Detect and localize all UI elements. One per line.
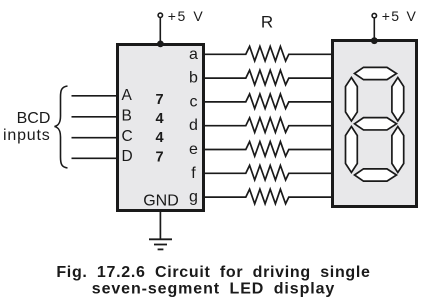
svg-text:b: b [189,70,198,87]
svg-text:+5 V: +5 V [168,8,205,24]
svg-text:D: D [122,148,133,165]
svg-text:A: A [122,87,133,104]
svg-text:seven-segment LED display: seven-segment LED display [92,280,335,297]
svg-text:R: R [261,13,273,32]
resistor R (segment e) with wires [204,142,331,157]
display segment d [355,169,397,181]
svg-text:4: 4 [155,111,163,127]
display segment g [355,118,397,130]
display segment b [392,78,404,122]
svg-text:e: e [189,141,198,158]
junction dot on U1 Vcc pin [157,41,164,48]
svg-text:f: f [191,165,196,182]
brace grouping BCD input wires [55,86,68,168]
svg-text:+5 V: +5 V [382,8,417,24]
svg-text:c: c [190,93,198,110]
resistor R (segment b) with wires [204,70,331,85]
IC U1: 7447 BCD-to-seven-segment decoder body [118,45,204,211]
wire input C [72,137,118,139]
wire input D [72,157,118,159]
svg-text:g: g [189,189,198,206]
svg-text:B: B [122,108,132,125]
seven-segment LED display DS1 body [333,41,417,207]
wire input B [72,116,118,118]
svg-text:a: a [189,46,198,63]
display segment e [346,127,358,173]
ground [149,239,172,249]
svg-text:4: 4 [155,130,163,146]
svg-text:inputs: inputs [3,127,51,144]
resistor R (segment a) with wires [204,46,331,61]
junction dot on display common anode [371,37,378,44]
svg-text:7: 7 [155,149,163,165]
svg-text:d: d [189,117,198,134]
display segment f [346,78,358,122]
svg-text:GND: GND [143,192,179,209]
svg-text:7: 7 [155,92,163,108]
+5 V supply terminal (left, Vcc of U1) [158,13,162,43]
resistor R (segment d) with wires [204,118,331,133]
+5 V supply terminal (right, common anode of display) [372,13,376,40]
resistor R (segment c) with wires [204,94,331,109]
resistor R (segment g) with wires [204,189,331,204]
svg-text:BCD: BCD [17,110,51,127]
wire input A [72,95,118,97]
display segment a [355,67,397,79]
resistor R (segment f) with wires [204,165,331,180]
svg-text:Fig. 17.2.6 Circuit for drivin: Fig. 17.2.6 Circuit for driving single [56,264,370,281]
svg-text:C: C [122,128,133,145]
display segment c [392,127,404,173]
wire from U1 GND pin to ground [159,212,161,239]
